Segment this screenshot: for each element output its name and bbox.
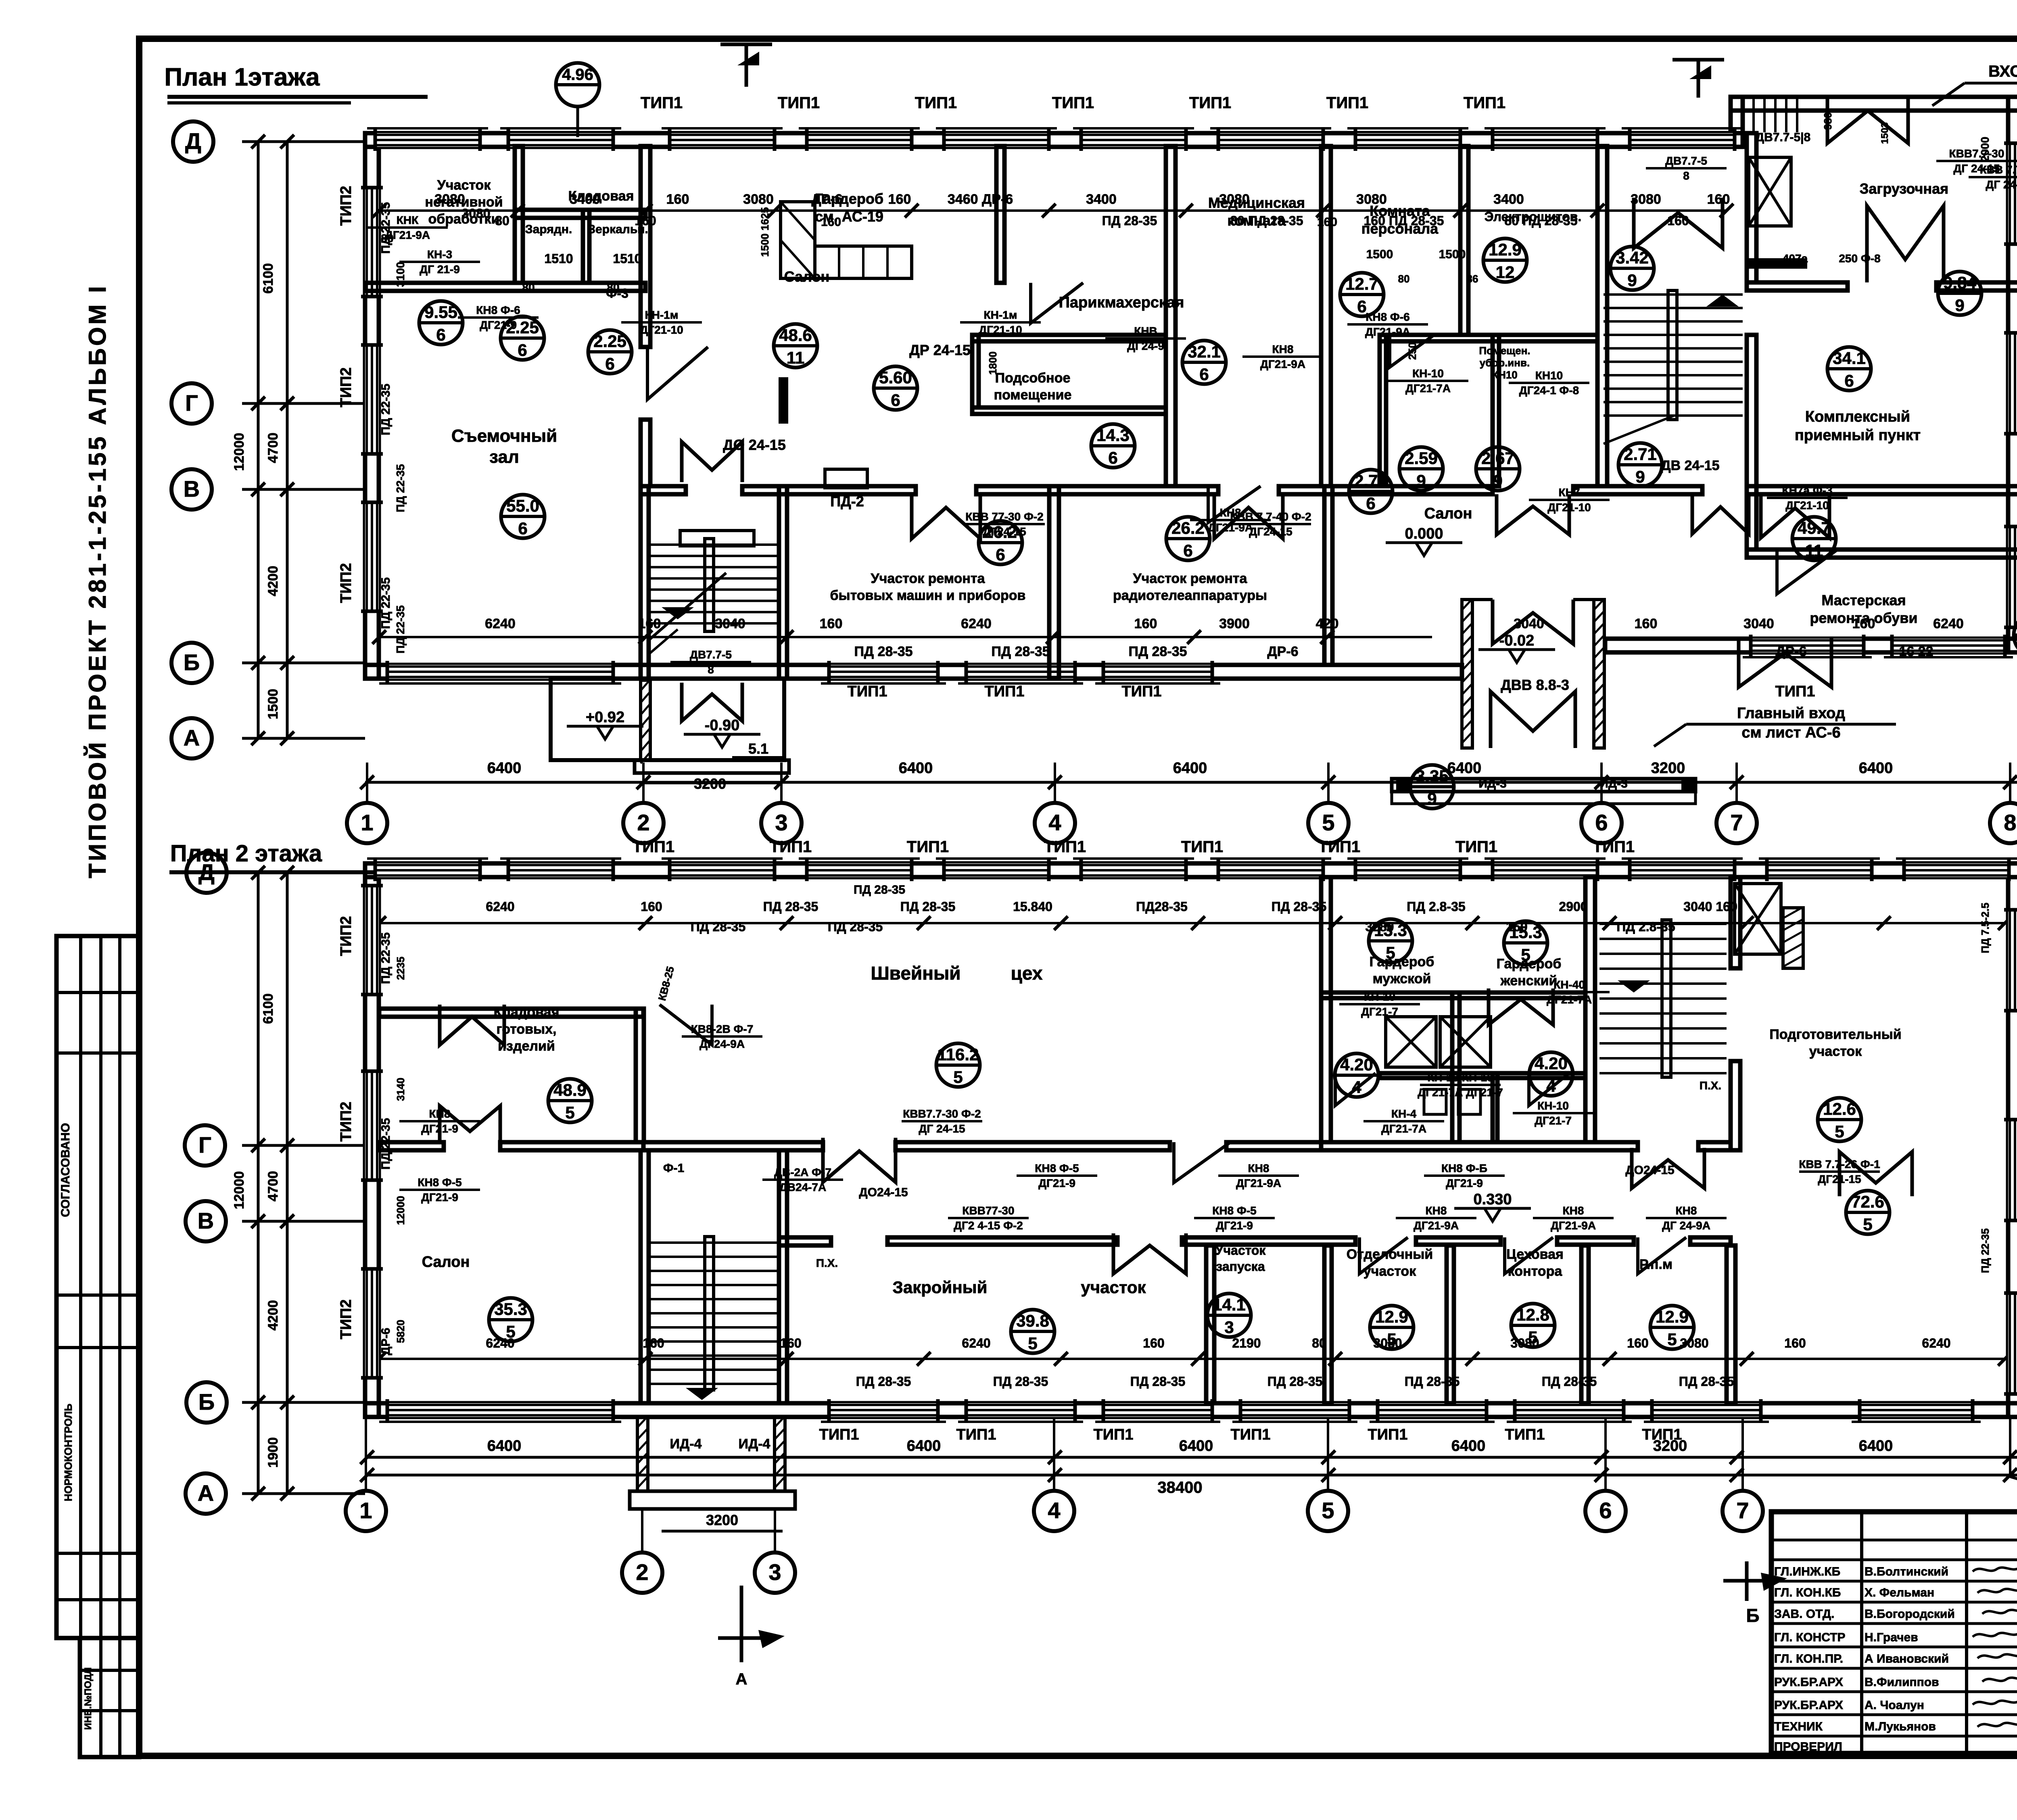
plan2 stair arrow <box>686 1388 718 1400</box>
plan2 top window 9 <box>1493 863 1597 877</box>
svg-text:6240: 6240 <box>961 616 992 631</box>
svg-text:6: 6 <box>1108 448 1117 467</box>
svg-text:ТИП1: ТИП1 <box>1094 1426 1134 1443</box>
svg-text:80 ПД 28-35: 80 ПД 28-35 <box>1230 213 1303 228</box>
svg-text:ИД-4: ИД-4 <box>739 1436 770 1452</box>
plan2 door cutting <box>1113 1233 1186 1274</box>
svg-text:3.42: 3.42 <box>1616 248 1649 267</box>
plan1 door shoe shop <box>1739 639 1831 687</box>
svg-text:80: 80 <box>1398 273 1410 285</box>
svg-text:ДГ24-15: ДГ24-15 <box>983 525 1026 538</box>
svg-text:5.1: 5.1 <box>748 740 768 757</box>
plan2 top window 2 <box>508 863 613 877</box>
svg-text:женский: женский <box>1500 973 1558 988</box>
plan2 room number circles <box>936 1043 980 1087</box>
svg-text:участок: участок <box>1363 1264 1416 1279</box>
svg-text:План 1этажа: План 1этажа <box>164 63 320 91</box>
plan1 porch hatched divider <box>641 680 650 760</box>
svg-text:Участок ремонта: Участок ремонта <box>871 571 986 586</box>
svg-text:ДВ24-7А: ДВ24-7А <box>779 1181 826 1193</box>
svg-text:ИНВ.№ПОДЛ: ИНВ.№ПОДЛ <box>83 1667 94 1730</box>
svg-text:5: 5 <box>1863 1215 1872 1234</box>
svg-text:ТИП1: ТИП1 <box>1318 838 1360 856</box>
left margin stamp table lower <box>80 1638 139 1757</box>
svg-text:6400: 6400 <box>1179 1438 1213 1454</box>
svg-text:5: 5 <box>1028 1334 1037 1353</box>
plan1 right stair treads <box>1604 293 1743 296</box>
svg-text:Х. Фельман: Х. Фельман <box>1865 1586 1934 1599</box>
svg-text:420: 420 <box>1316 616 1339 631</box>
svg-text:НОРМОКОНТРОЛЬ: НОРМОКОНТРОЛЬ <box>62 1404 74 1501</box>
svg-text:3080: 3080 <box>461 206 490 221</box>
svg-text:55.0: 55.0 <box>506 496 539 515</box>
svg-text:ДГ21-7: ДГ21-7 <box>1535 1114 1572 1127</box>
plan1 medical/staff wall <box>1321 146 1331 486</box>
svg-text:ПРОВЕРИЛ: ПРОВЕРИЛ <box>1774 1740 1842 1753</box>
svg-text:Закройный: Закройный <box>893 1278 988 1297</box>
svg-text:ДВВ 8.8-3: ДВВ 8.8-3 <box>1501 677 1569 693</box>
plan2 right window 3 <box>2008 1293 2017 1394</box>
plan2 bottom long window left <box>387 1403 613 1417</box>
svg-text:ПД 2.8-35: ПД 2.8-35 <box>1616 919 1675 934</box>
plan2 top internal dim line <box>379 922 2005 924</box>
svg-text:5: 5 <box>1835 1122 1844 1141</box>
plan1 cleaners left wall <box>1380 335 1386 486</box>
svg-text:26.2: 26.2 <box>1171 518 1205 537</box>
svg-text:4: 4 <box>1048 810 1061 835</box>
plan2 bottom window 1 <box>829 1403 938 1417</box>
svg-text:ДГ21-9А: ДГ21-9А <box>1365 326 1410 338</box>
svg-text:5.60: 5.60 <box>879 368 912 387</box>
plan1 main corridor wall <box>641 486 686 494</box>
plan2 wc cubicles <box>1424 1089 1446 1114</box>
section mark B top right <box>1697 60 1700 98</box>
plan2 left window 1 <box>365 886 379 995</box>
plan1 loading bottom wall seg2 <box>1936 282 2017 290</box>
plan1 door loading inner <box>1867 206 1944 282</box>
svg-text:160: 160 <box>666 192 689 207</box>
svg-text:160: 160 <box>888 192 911 207</box>
plan1 negative room right wall <box>515 146 523 283</box>
svg-text:6400: 6400 <box>1859 1438 1893 1454</box>
svg-text:12.9: 12.9 <box>1656 1307 1689 1326</box>
svg-text:ТИП1: ТИП1 <box>641 94 683 112</box>
svg-text:3140: 3140 <box>395 1078 407 1101</box>
svg-text:КН8 Ф-Б: КН8 Ф-Б <box>1441 1162 1487 1174</box>
svg-text:160: 160 <box>641 899 662 914</box>
svg-text:ДГ 24-9А: ДГ 24-9А <box>1662 1219 1710 1232</box>
svg-text:12.7: 12.7 <box>1345 274 1378 293</box>
plan1 top window 8 <box>1355 133 1460 147</box>
svg-text:1503: 1503 <box>1879 122 1890 144</box>
svg-text:ТИП1: ТИП1 <box>956 1426 996 1443</box>
svg-text:ПД 28-35: ПД 28-35 <box>1272 899 1327 914</box>
svg-text:160: 160 <box>1784 1336 1806 1350</box>
plan1 vestibule left hatched wall <box>1462 600 1472 748</box>
svg-text:Салон: Салон <box>784 268 830 285</box>
plan2 top exterior wall <box>365 863 2017 877</box>
plan1 repair rooms split wall <box>1049 486 1059 679</box>
svg-text:Цеховая: Цеховая <box>1506 1247 1564 1262</box>
svg-text:ПД 28-35: ПД 28-35 <box>1102 213 1157 228</box>
svg-text:6240: 6240 <box>485 616 516 631</box>
svg-text:ДО24-15: ДО24-15 <box>1625 1164 1674 1177</box>
svg-text:4: 4 <box>1546 1076 1556 1095</box>
plan2 bottom dimension lines <box>365 1456 2017 1459</box>
svg-text:ПД 28-35: ПД 28-35 <box>991 644 1050 659</box>
svg-text:35.3: 35.3 <box>494 1300 527 1319</box>
svg-text:0.000: 0.000 <box>1405 525 1443 542</box>
svg-text:Салон: Салон <box>422 1254 470 1270</box>
plan1 left exterior wall <box>365 133 379 679</box>
svg-text:5820: 5820 <box>395 1320 407 1343</box>
svg-text:Зарядн.: Зарядн. <box>525 223 572 236</box>
svg-text:ДГ24-15: ДГ24-15 <box>1249 525 1292 538</box>
svg-text:КВВ 7.7-40 Ф-2: КВВ 7.7-40 Ф-2 <box>1230 510 1311 523</box>
svg-text:6240: 6240 <box>1933 616 1964 631</box>
svg-text:ПД 28-35: ПД 28-35 <box>1679 1374 1734 1389</box>
svg-text:Загрузочная: Загрузочная <box>1860 180 1948 197</box>
plan2 finishing/office wall <box>1447 1245 1454 1403</box>
svg-text:ТИП1: ТИП1 <box>848 683 887 700</box>
svg-text:8: 8 <box>1683 169 1689 182</box>
plan1 bottom exterior wall left part <box>365 665 1462 679</box>
plan1 top window 1 <box>375 133 480 147</box>
plan1 door medical <box>1208 486 1261 522</box>
plan1 hatch wall piece <box>1747 258 1807 269</box>
svg-text:1900: 1900 <box>265 1437 281 1468</box>
plan1 right stair stringer <box>1668 290 1677 420</box>
svg-text:6: 6 <box>1183 541 1192 560</box>
svg-text:3: 3 <box>1224 1318 1234 1337</box>
svg-text:ДВ-2А Ф-7: ДВ-2А Ф-7 <box>774 1166 831 1179</box>
svg-text:Ф-3: Ф-3 <box>606 286 628 301</box>
svg-text:3400: 3400 <box>570 192 600 207</box>
svg-text:3: 3 <box>768 1559 781 1585</box>
svg-text:ДР-6: ДР-6 <box>811 192 842 207</box>
svg-text:3400: 3400 <box>1086 192 1117 207</box>
svg-text:КН8: КН8 <box>1272 343 1294 355</box>
svg-text:1510: 1510 <box>544 251 573 266</box>
plan2 cloak split wall <box>1452 993 1460 1142</box>
plan2 left exterior wall <box>365 863 379 1417</box>
svg-text:160: 160 <box>635 213 656 228</box>
svg-text:6400: 6400 <box>1173 760 1207 777</box>
svg-text:ДГ21-9: ДГ21-9 <box>421 1191 458 1204</box>
svg-text:КН8 Ф-5: КН8 Ф-5 <box>418 1176 461 1189</box>
plan2 left window 3 <box>365 1269 379 1378</box>
plan1 entry steps top right <box>1741 99 1744 132</box>
svg-text:КН-10: КН-10 <box>1364 990 1395 1003</box>
plan1 loading left wall lower <box>1747 335 1756 550</box>
svg-text:КНВ: КНВ <box>1134 325 1157 337</box>
svg-text:КН8 Ф-6: КН8 Ф-6 <box>1366 311 1409 323</box>
plan1 right window 3 <box>2008 527 2017 627</box>
plan2 porch platform <box>630 1491 795 1509</box>
plan1 axis D <box>173 121 213 162</box>
svg-text:5: 5 <box>1521 945 1530 964</box>
plan2 bottom internal dim line <box>379 1358 2005 1360</box>
plan2 top window 5 <box>944 863 1049 877</box>
svg-text:ДГ2 4-15 Ф-2: ДГ2 4-15 Ф-2 <box>954 1219 1023 1232</box>
plan1 top window 3 <box>670 133 775 147</box>
plan2 bottom window 6 <box>1515 1403 1624 1417</box>
svg-text:6240: 6240 <box>486 1336 514 1350</box>
plan2 door finishing <box>1359 1237 1408 1274</box>
svg-text:160: 160 <box>821 215 841 229</box>
svg-text:6400: 6400 <box>487 760 522 777</box>
svg-text:3080: 3080 <box>1631 192 1661 207</box>
svg-text:КН-40: КН-40 <box>1553 978 1585 991</box>
plan2 storeroom right wall <box>636 1009 644 1142</box>
plan1 top internal dim line <box>379 209 1727 212</box>
svg-text:4.20: 4.20 <box>1535 1054 1568 1073</box>
svg-text:3460 ДР-6: 3460 ДР-6 <box>948 192 1013 207</box>
svg-text:ПД-2: ПД-2 <box>830 493 864 510</box>
svg-text:ДГ21-9: ДГ21-9 <box>480 319 517 331</box>
svg-text:6240: 6240 <box>486 899 514 914</box>
plan2 top window 11 <box>1767 863 1872 877</box>
svg-text:ГЛ.ИНЖ.КБ: ГЛ.ИНЖ.КБ <box>1774 1565 1840 1578</box>
svg-text:ТИП2: ТИП2 <box>338 916 355 956</box>
svg-text:6400: 6400 <box>899 760 933 777</box>
svg-text:9: 9 <box>1493 471 1502 490</box>
plan2 stair right wall upper <box>1731 877 1740 968</box>
svg-text:ГЛ. КОНСТР: ГЛ. КОНСТР <box>1774 1631 1846 1644</box>
svg-text:КВВ 7.7-26 Ф-1: КВВ 7.7-26 Ф-1 <box>1799 1158 1880 1170</box>
plan2 cabinet 1 <box>1386 1017 1436 1067</box>
svg-text:изделий: изделий <box>498 1039 555 1054</box>
plan1 loading left wall upper <box>1747 133 1756 282</box>
plan1 stairwell treads <box>649 543 777 546</box>
svg-text:А: А <box>198 1480 214 1506</box>
svg-text:12000: 12000 <box>232 1171 247 1210</box>
plan1 utility room box <box>972 335 1166 341</box>
plan2 door rpm <box>1638 1237 1686 1274</box>
svg-text:Съемочный: Съемочный <box>451 426 557 446</box>
svg-text:ТИП1: ТИП1 <box>1052 94 1094 112</box>
svg-text:ПД 22-35: ПД 22-35 <box>1979 1229 1991 1273</box>
svg-text:Участок ремонта: Участок ремонта <box>1133 571 1248 586</box>
svg-text:6240: 6240 <box>962 1336 990 1350</box>
svg-text:160: 160 <box>1627 1336 1648 1350</box>
svg-text:4700: 4700 <box>265 433 281 463</box>
axis 2 below porch <box>622 1553 662 1593</box>
svg-text:ДВ7.7-5|8: ДВ7.7-5|8 <box>1756 131 1811 144</box>
plan2 top window 12 <box>1904 863 2009 877</box>
svg-text:3200: 3200 <box>1651 760 1685 777</box>
plan1 hall pier <box>779 377 788 424</box>
svg-text:160: 160 <box>1317 215 1337 229</box>
svg-text:ДГ 24-15: ДГ 24-15 <box>919 1122 965 1135</box>
svg-text:Ф-1: Ф-1 <box>663 1162 684 1175</box>
svg-text:КН-10 КН-10: КН-10 КН-10 <box>1427 1071 1493 1084</box>
svg-text:ДГ21-9: ДГ21-9 <box>1446 1177 1483 1189</box>
svg-text:9: 9 <box>1955 296 1964 315</box>
plan2 axis V <box>186 1201 226 1241</box>
svg-text:ТИП2: ТИП2 <box>338 368 355 407</box>
svg-text:ДГ21-9: ДГ21-9 <box>1038 1177 1075 1189</box>
svg-text:3080: 3080 <box>1373 1336 1402 1350</box>
svg-text:1510: 1510 <box>613 251 641 266</box>
svg-text:1500: 1500 <box>1439 248 1466 261</box>
svg-text:80: 80 <box>381 232 393 244</box>
svg-text:Отделочный: Отделочный <box>1347 1247 1433 1262</box>
svg-text:ТИП1: ТИП1 <box>1044 838 1086 856</box>
plan2 left dimension lines <box>257 873 260 1494</box>
svg-text:контора: контора <box>1508 1264 1563 1279</box>
plan2 bottom window 3 <box>1103 1403 1212 1417</box>
plan1 door workshop <box>1777 550 1837 594</box>
svg-text:ДГ21-7А: ДГ21-7А <box>1547 993 1592 1006</box>
svg-text:см лист АС-6: см лист АС-6 <box>1741 724 1840 741</box>
svg-text:ГЛ. КОН.ПР.: ГЛ. КОН.ПР. <box>1774 1652 1843 1665</box>
plan1 left dimension lines <box>257 142 260 738</box>
svg-text:2.71: 2.71 <box>1624 445 1657 464</box>
svg-text:цех: цех <box>1011 963 1043 984</box>
plan2 elevator shaft <box>1735 884 1781 954</box>
svg-text:помещение: помещение <box>994 387 1072 403</box>
svg-text:4.96: 4.96 <box>562 66 593 84</box>
plan1 vestibule right hatched wall <box>1594 600 1604 748</box>
plan1 bottom window 2 <box>966 665 1075 679</box>
svg-text:ТИП1: ТИП1 <box>819 1426 859 1443</box>
plan1 stairwell right wall <box>779 486 787 679</box>
svg-text:КН8 Ф-6: КН8 Ф-6 <box>476 304 520 316</box>
plan1 studio right wall lower <box>641 420 650 486</box>
svg-text:160: 160 <box>1635 616 1658 631</box>
plan1 door repair2 <box>1214 494 1283 539</box>
plan1 room number circles <box>419 301 463 345</box>
svg-text:6: 6 <box>518 519 527 538</box>
plan2 right window 2 <box>2008 1120 2017 1220</box>
plan1 top exterior wall <box>365 133 1743 147</box>
svg-text:48.9: 48.9 <box>553 1080 587 1099</box>
svg-text:6: 6 <box>1366 494 1375 513</box>
svg-text:убор.инв.: убор.инв. <box>1480 357 1530 369</box>
plan2 wc wall <box>1380 1073 1585 1078</box>
svg-text:КН8: КН8 <box>1563 1204 1584 1217</box>
plan2 corridor upper wall <box>379 1142 444 1150</box>
plan1 left window 2 <box>365 345 379 454</box>
plan2 stair right wall lower <box>1731 1061 1740 1150</box>
plan2 top window 3 <box>670 863 775 877</box>
plan2 bottom window 5 <box>1378 1403 1487 1417</box>
svg-text:КН-1м: КН-1м <box>645 309 679 321</box>
svg-text:250 Ф-8: 250 Ф-8 <box>1839 252 1880 265</box>
svg-text:9: 9 <box>1416 471 1426 490</box>
svg-text:3080: 3080 <box>1356 192 1387 207</box>
section mark A bottom <box>740 1586 743 1662</box>
svg-text:Парикмахерская: Парикмахерская <box>1059 294 1184 311</box>
plan2 axis A <box>186 1473 226 1514</box>
svg-text:КН7: КН7 <box>1559 486 1580 499</box>
svg-text:ДГ21-9А: ДГ21-9А <box>1414 1219 1459 1232</box>
plan1 axis V <box>171 469 212 510</box>
svg-text:ДО 24-15: ДО 24-15 <box>723 437 786 453</box>
svg-text:ДВ7.7-5: ДВ7.7-5 <box>690 648 732 661</box>
svg-text:РУК.БР.АРХ: РУК.БР.АРХ <box>1774 1699 1843 1712</box>
axis circles row between plans <box>347 803 387 843</box>
svg-text:участок: участок <box>1809 1044 1862 1059</box>
plan2 cloak/stair wall <box>1585 877 1595 1142</box>
svg-text:3080: 3080 <box>1219 192 1250 207</box>
svg-text:ДГ21-10: ДГ21-10 <box>979 324 1022 336</box>
plan1 top-right raised exterior wall <box>1731 97 2017 111</box>
plan1 studio right wall upper <box>641 146 650 347</box>
svg-text:9: 9 <box>1635 467 1645 486</box>
plan2 bottom window 7 <box>1652 1403 1761 1417</box>
svg-text:980: 980 <box>1822 112 1834 130</box>
svg-text:РУК.БР.АРХ: РУК.БР.АРХ <box>1774 1676 1843 1689</box>
svg-text:4700: 4700 <box>265 1171 281 1201</box>
plan1 right window 1 <box>2008 143 2017 244</box>
svg-text:Швейный: Швейный <box>871 963 960 984</box>
svg-text:160: 160 <box>1667 213 1689 228</box>
svg-text:6400: 6400 <box>487 1438 522 1454</box>
plan1 bottom window right 1 <box>1751 639 1864 652</box>
svg-text:ТИП1: ТИП1 <box>770 838 812 856</box>
svg-text:КНК: КНК <box>397 214 419 226</box>
svg-text:ДГ21-9А: ДГ21-9А <box>1260 358 1305 370</box>
svg-text:КВВ 7.7-30: КВВ 7.7-30 <box>1980 163 2017 176</box>
svg-text:ПД 28-35: ПД 28-35 <box>1267 1374 1323 1389</box>
plan2 axis B <box>186 1382 227 1423</box>
svg-text:зал: зал <box>489 447 519 467</box>
svg-text:ТИП1: ТИП1 <box>1189 94 1231 112</box>
svg-text:ТИП1: ТИП1 <box>1326 94 1368 112</box>
svg-text:4200: 4200 <box>265 566 281 596</box>
svg-text:готовых,: готовых, <box>497 1022 557 1037</box>
plan2 bottom window 4 <box>1240 1403 1349 1417</box>
svg-text:Д: Д <box>198 859 215 885</box>
svg-text:КВВ7.7-30 Ф-2: КВВ7.7-30 Ф-2 <box>903 1107 981 1120</box>
svg-text:Комплексный: Комплексный <box>1805 408 1910 425</box>
plan2 launch/finishing wall <box>1324 1245 1332 1403</box>
svg-text:А Ивановский: А Ивановский <box>1865 1652 1949 1665</box>
svg-text:ТИП1: ТИП1 <box>778 94 820 112</box>
svg-text:Главный вход: Главный вход <box>1737 705 1845 722</box>
svg-text:ТИП1: ТИП1 <box>907 838 949 856</box>
plan1 hairdresser/medical wall <box>1166 146 1176 486</box>
plan1 top window 9 <box>1493 133 1597 147</box>
svg-text:ТИП1: ТИП1 <box>1181 838 1223 856</box>
svg-text:Р.п.м: Р.п.м <box>1639 1257 1672 1272</box>
svg-text:3040: 3040 <box>715 616 745 631</box>
plan1 bottom exterior wall right part <box>1605 639 2017 652</box>
svg-text:КН7а Ф-3: КН7а Ф-3 <box>1782 484 1832 497</box>
svg-text:ДГ21-10: ДГ21-10 <box>1785 499 1829 512</box>
svg-text:5: 5 <box>565 1103 574 1122</box>
plan1 cleaners top wall <box>1380 335 1597 341</box>
svg-text:КН-3: КН-3 <box>427 248 452 261</box>
plan2 right exterior wall <box>2008 863 2017 1417</box>
svg-text:ПД 28-35: ПД 28-35 <box>763 899 818 914</box>
svg-text:1500: 1500 <box>265 689 281 719</box>
svg-text:приемный пункт: приемный пункт <box>1795 427 1921 444</box>
svg-text:В.Филиппов: В.Филиппов <box>1865 1676 1939 1689</box>
svg-text:Кладовая: Кладовая <box>494 1005 560 1020</box>
svg-text:160: 160 <box>1707 192 1730 207</box>
plan2 storeroom top wall <box>379 1009 643 1017</box>
svg-text:3100: 3100 <box>394 262 407 287</box>
plan2 cabinet 2 <box>1440 1017 1491 1067</box>
plan1 stairhall left wall <box>1597 146 1607 486</box>
svg-text:ДР-6: ДР-6 <box>1267 644 1298 659</box>
axis 3 below porch <box>755 1553 795 1593</box>
svg-text:160: 160 <box>643 1336 664 1350</box>
svg-text:Участок: Участок <box>437 178 491 193</box>
